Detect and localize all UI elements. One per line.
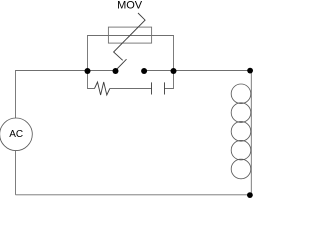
capacitor (snubber C) right plate	[164, 82, 166, 94]
node: junction dot at MOV/RC left tap	[85, 68, 91, 74]
wire: resistor to capacitor lead	[110, 88, 152, 90]
wire: top main wire right segment (switch right contact to coil top node)	[144, 70, 251, 72]
node: junction dot at MOV/RC right tap	[171, 68, 177, 74]
AC source circle	[0, 118, 32, 151]
wire: bottom return wire	[16, 194, 252, 196]
coil loop 3	[231, 122, 251, 142]
capacitor (snubber C) left plate	[151, 82, 153, 94]
varistor MOV body rectangle	[108, 27, 151, 43]
wire: top main wire left segment (AC source to switch left contact)	[16, 71, 116, 119]
wire: RC snubber left riser and resistor lead	[88, 71, 95, 89]
wire: capacitor right lead up to right node	[165, 71, 174, 89]
coil (relay winding) loop 1	[231, 84, 251, 104]
switch lever (open contact blade)	[116, 59, 127, 70]
node: switch left contact dot	[113, 68, 119, 74]
node: coil bottom terminal dot	[247, 192, 253, 198]
coil loop 4	[231, 140, 251, 160]
svg-text:MOV: MOV	[117, 0, 143, 12]
resistor (snubber R) zigzag	[95, 82, 110, 95]
wire: coil right-side vertical	[250, 71, 252, 195]
node: switch right contact dot	[141, 68, 147, 74]
svg-text:AC: AC	[9, 129, 23, 140]
varistor MOV diagonal stroke	[114, 13, 146, 60]
wire: MOV branch left riser, top run and right riser	[88, 36, 174, 71]
coil loop 2	[231, 103, 251, 123]
node: coil top terminal dot	[247, 68, 253, 74]
wire: left vertical below AC source	[15, 151, 17, 195]
coil loop 5	[231, 159, 251, 179]
